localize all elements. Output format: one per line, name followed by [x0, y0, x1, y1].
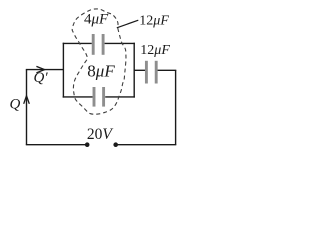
- svg-text:20V: 20V: [87, 126, 114, 143]
- box top edge (gap at capacitor C1): [63, 42, 92, 44]
- capacitor C2 8uF plates: [93, 87, 96, 107]
- box (parallel combination) left edge: [62, 43, 64, 98]
- wire: box right edge to capacitor C3: [134, 69, 146, 71]
- capacitor C1 4uF plates: [92, 34, 95, 55]
- svg-text:8μF: 8μF: [87, 61, 115, 80]
- svg-text:Q′: Q′: [34, 70, 49, 86]
- wire: top-left horizontal: [26, 69, 64, 71]
- capacitor C3 12uF plates: [145, 61, 148, 84]
- dashed loop (Gaussian surface around C1 and C2): [72, 9, 126, 114]
- svg-text:12μF: 12μF: [139, 13, 169, 28]
- wire: bottom right segment: [116, 144, 177, 146]
- battery terminal dot right: [113, 142, 118, 147]
- box right edge: [133, 43, 135, 98]
- wire: bottom left segment: [26, 144, 87, 146]
- battery terminal dot left: [85, 142, 90, 147]
- box bottom edge (gap at capacitor C2): [63, 96, 93, 98]
- svg-text:12μF: 12μF: [140, 43, 170, 58]
- arrow right on top-left wire: [36, 66, 44, 72]
- wire: left vertical: [26, 70, 28, 145]
- wire: right vertical: [175, 70, 177, 144]
- arrow up on left wire: [24, 96, 30, 104]
- svg-text:4μF: 4μF: [84, 11, 109, 27]
- svg-text:Q: Q: [10, 97, 21, 113]
- wire: capacitor C3 to right corner: [158, 69, 177, 71]
- leader line to 12uF equivalent label: [117, 20, 139, 28]
